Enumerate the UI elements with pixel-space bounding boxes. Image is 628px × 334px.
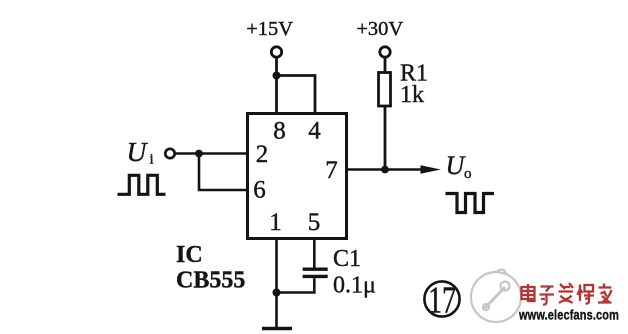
svg-text:o: o [464,166,472,182]
char zi [540,287,555,305]
terminal +30V [380,47,390,57]
terminal +15V [271,47,281,57]
junction +15V node [273,72,281,80]
watermark text dianzifashaoyou [522,283,612,305]
watermark logo circle [471,269,521,322]
wire +30V to R1 [384,58,387,73]
wire input node to pin 6 [199,154,246,191]
char shao [578,285,595,304]
capacitor C1 [303,268,328,271]
svg-text:4: 4 [308,117,321,144]
char you [598,284,612,303]
figure number 17 circled [424,281,459,316]
svg-text:0.1μ: 0.1μ [333,273,376,299]
junction input node [195,150,203,158]
resistor R1 [379,73,391,107]
ground [262,327,292,331]
svg-text:C1: C1 [333,246,361,272]
wire pin 1 to ground [275,240,278,327]
arrow output [421,165,441,173]
op-amp U1 IC CB555 box [248,114,347,239]
svg-text:8: 8 [273,117,286,144]
svg-text:6: 6 [253,177,266,204]
wire +15V to pin 8 [275,58,278,113]
wire Ui to pin 2 [175,152,246,155]
wire +15V node to pin 4 [277,76,316,114]
wire C1 to ground node [277,278,315,292]
svg-text:CB555: CB555 [176,268,245,294]
svg-text:i: i [150,152,154,168]
svg-text:+30V: +30V [356,18,403,40]
svg-text:5: 5 [308,209,321,236]
wire pin 7 to output [348,168,424,171]
svg-text:www.elecfans.com: www.elecfans.com [518,307,619,323]
char fa [559,283,574,303]
svg-text:17: 17 [428,280,456,322]
junction output node [381,166,389,174]
svg-text:1: 1 [269,209,282,236]
char dian [522,284,535,301]
svg-text:7: 7 [325,157,338,184]
wire pin 5 to C1 [313,240,316,268]
terminal Ui [165,149,174,158]
svg-text:IC: IC [176,242,203,268]
svg-text:1k: 1k [400,82,424,108]
wire R1 to output node [384,106,387,170]
svg-text:2: 2 [256,141,269,168]
input waveform symbol [118,175,166,194]
svg-text:+15V: +15V [246,18,293,40]
junction ground node [273,289,281,297]
svg-text:U: U [127,136,149,167]
output waveform symbol [446,194,495,213]
